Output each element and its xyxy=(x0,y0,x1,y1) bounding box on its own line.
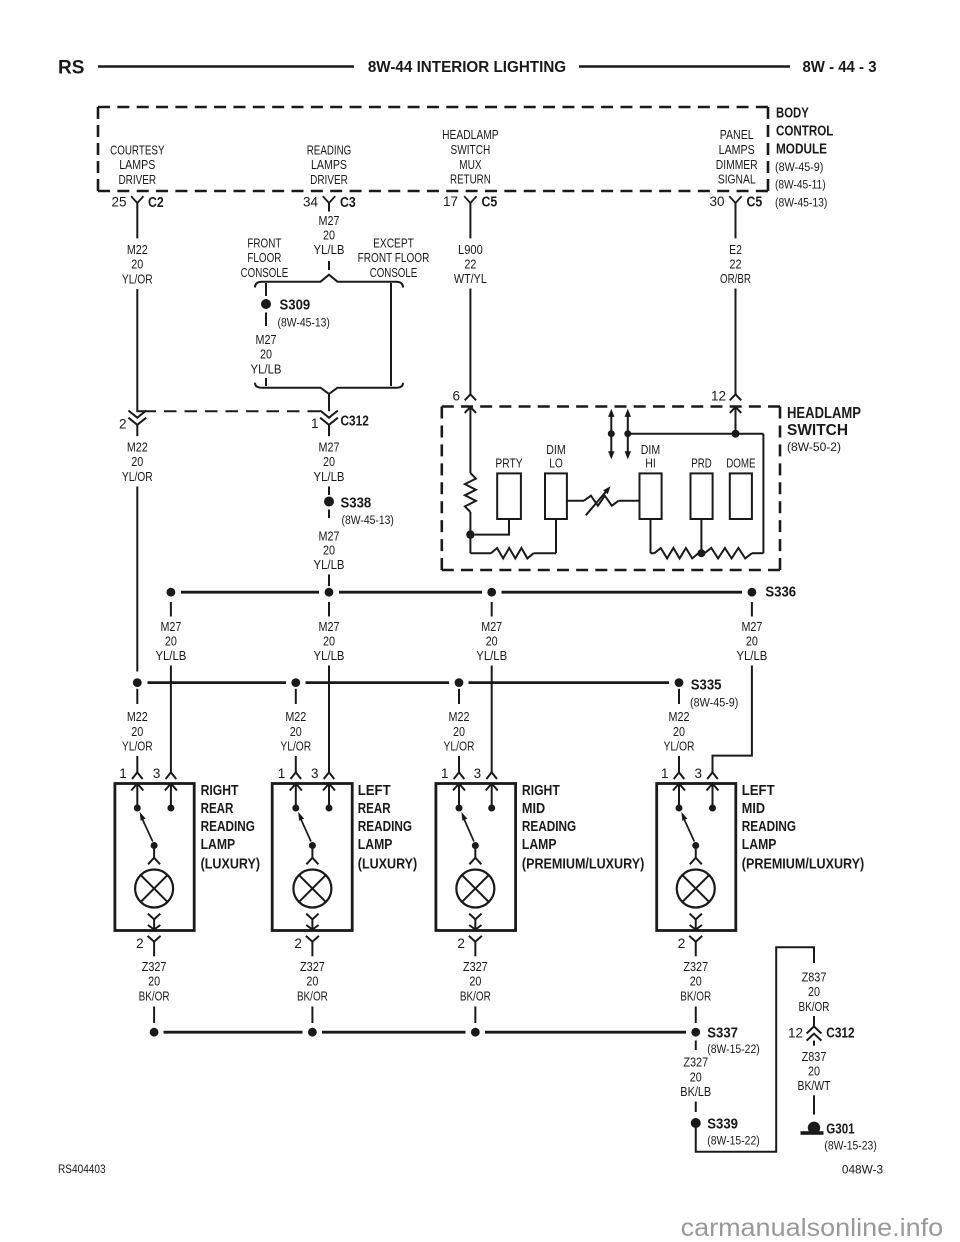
svg-text:(8W-45-9): (8W-45-9) xyxy=(775,160,823,174)
svg-text:(8W-45-13): (8W-45-13) xyxy=(278,316,330,330)
left rear reading lamp pin 1 connector xyxy=(278,766,301,781)
wire resistor to junction xyxy=(469,512,471,535)
svg-text:20: 20 xyxy=(131,454,143,469)
svg-text:LAMP: LAMP xyxy=(201,837,236,853)
right rear reading lamp pin 2 internal xyxy=(148,914,160,930)
splice S309 dashed branch xyxy=(261,283,271,326)
svg-text:34: 34 xyxy=(303,195,319,210)
svg-text:20: 20 xyxy=(453,724,465,739)
svg-text:SWITCH: SWITCH xyxy=(787,422,848,439)
svg-text:20: 20 xyxy=(148,974,160,989)
svg-text:(8W-15-22): (8W-15-22) xyxy=(707,1134,759,1148)
svg-text:1: 1 xyxy=(441,766,449,781)
svg-text:(8W-45-13): (8W-45-13) xyxy=(775,195,827,209)
wire L900 from C5 17 xyxy=(469,203,471,239)
left rear reading lamp label xyxy=(358,783,418,872)
svg-text:DOME: DOME xyxy=(726,456,756,471)
wire switch right vertical xyxy=(762,434,764,554)
right mid reading lamp box xyxy=(436,784,516,931)
pin 12 inner chevron xyxy=(730,407,741,413)
svg-text:20: 20 xyxy=(808,984,820,999)
svg-text:1: 1 xyxy=(119,766,127,781)
wire label L900 22 WT/YL xyxy=(454,242,487,286)
svg-text:MID: MID xyxy=(742,801,765,817)
svg-text:12: 12 xyxy=(788,1026,803,1041)
footer drawing number RS404403 xyxy=(58,1162,106,1176)
right mid reading lamp bulb socket xyxy=(469,849,481,865)
svg-text:WT/YL: WT/YL xyxy=(454,271,487,286)
wire inside switch pin12 to bus xyxy=(735,407,737,434)
svg-text:YL/LB: YL/LB xyxy=(314,648,345,663)
left mid reading lamp pin 1 connector xyxy=(661,766,684,781)
svg-text:YL/OR: YL/OR xyxy=(122,271,153,286)
wire M22 drop 3 label xyxy=(444,689,475,773)
svg-text:Z837: Z837 xyxy=(802,1049,827,1064)
pin 6 chevron xyxy=(452,389,476,404)
svg-text:C3: C3 xyxy=(340,195,356,211)
wire M27 drop 3 label xyxy=(476,602,507,663)
right rear reading lamp pin 2 connector xyxy=(136,936,161,956)
wire M27 from C3 xyxy=(328,203,330,212)
svg-text:3: 3 xyxy=(474,766,482,781)
svg-text:LO: LO xyxy=(549,456,563,471)
svg-text:20: 20 xyxy=(131,724,143,739)
svg-text:Z327: Z327 xyxy=(300,959,325,974)
svg-text:8W - 44 - 3: 8W - 44 - 3 xyxy=(802,59,876,76)
svg-text:G301: G301 xyxy=(826,1122,854,1138)
svg-text:1: 1 xyxy=(311,416,319,431)
svg-text:2: 2 xyxy=(119,417,127,432)
svg-text:REAR: REAR xyxy=(358,801,391,817)
svg-text:DIMMER: DIMMER xyxy=(716,157,758,172)
left mid reading lamp wire label Z327 20 BK/OR xyxy=(680,959,711,1023)
svg-text:HEADLAMP: HEADLAMP xyxy=(787,405,861,422)
svg-text:carmanualsonline.info: carmanualsonline.info xyxy=(681,1214,944,1242)
junction dot S337-1 xyxy=(150,1028,159,1037)
svg-text:(PREMIUM/LUXURY): (PREMIUM/LUXURY) xyxy=(742,856,865,872)
svg-text:20: 20 xyxy=(673,724,685,739)
svg-text:(LUXURY): (LUXURY) xyxy=(201,856,261,872)
right mid reading lamp pin 3 connector xyxy=(474,766,497,781)
svg-text:PRD: PRD xyxy=(691,456,711,471)
left rear reading lamp pin 2 internal xyxy=(306,914,318,930)
right mid reading lamp pin 2 connector xyxy=(457,936,482,956)
svg-text:HI: HI xyxy=(645,456,656,471)
wire label Z837 20 BK/OR xyxy=(799,969,830,1013)
svg-text:M27: M27 xyxy=(319,619,340,634)
svg-text:S335: S335 xyxy=(691,678,722,694)
splice bus S337 xyxy=(164,1031,687,1034)
left mid reading lamp pin 3 connector xyxy=(694,766,717,781)
wire brace to C312 xyxy=(328,393,330,411)
wire label M27 20 YL/LB below C312 xyxy=(314,440,345,484)
svg-text:YL/OR: YL/OR xyxy=(280,739,311,754)
junction dot S337-2 xyxy=(308,1028,317,1037)
connector C5 pin 30 xyxy=(709,194,762,211)
svg-text:RS404403: RS404403 xyxy=(58,1162,106,1176)
svg-text:RETURN: RETURN xyxy=(450,172,491,187)
svg-text:(PREMIUM/LUXURY): (PREMIUM/LUXURY) xyxy=(522,856,645,872)
svg-text:20: 20 xyxy=(165,634,177,649)
left rear reading lamp switch xyxy=(292,805,332,850)
junction dot pin12 bus xyxy=(732,430,740,438)
resistor lower right run 2 xyxy=(705,548,764,558)
svg-text:L900: L900 xyxy=(458,242,483,257)
svg-text:20: 20 xyxy=(746,634,758,649)
svg-text:OR/BR: OR/BR xyxy=(720,271,751,286)
svg-text:READING: READING xyxy=(201,819,255,835)
svg-text:LAMPS: LAMPS xyxy=(311,157,347,172)
right rear reading lamp bulb xyxy=(135,870,173,908)
svg-text:20: 20 xyxy=(323,543,335,558)
svg-text:C312: C312 xyxy=(341,414,369,430)
wire label M27 20 YL/LB below S338 xyxy=(314,529,345,587)
wire to ground G301 xyxy=(813,1095,815,1114)
svg-text:S309: S309 xyxy=(280,298,311,314)
svg-text:Z327: Z327 xyxy=(463,959,488,974)
svg-text:YL/OR: YL/OR xyxy=(664,739,695,754)
wire label Z837 20 BK/WT xyxy=(798,1049,831,1093)
svg-text:DRIVER: DRIVER xyxy=(118,172,156,187)
svg-text:YL/OR: YL/OR xyxy=(444,739,475,754)
svg-text:SIGNAL: SIGNAL xyxy=(718,172,756,187)
svg-text:LEFT: LEFT xyxy=(742,783,775,799)
svg-text:HEADLAMP: HEADLAMP xyxy=(442,127,499,142)
watermark xyxy=(681,1214,944,1242)
left mid reading lamp label xyxy=(742,783,865,872)
switch internal top bus xyxy=(628,433,764,435)
ground G301 symbol xyxy=(801,1122,877,1153)
BCM name BODY CONTROL MODULE with refs xyxy=(775,105,834,209)
svg-text:SWITCH: SWITCH xyxy=(451,142,491,157)
connector C2 pin 25 xyxy=(111,195,163,212)
header RS label xyxy=(58,58,84,79)
wire DIM LO to rheostat xyxy=(567,500,584,502)
svg-text:READING: READING xyxy=(307,142,352,157)
svg-text:MODULE: MODULE xyxy=(776,142,827,158)
right rear reading lamp wire label Z327 20 BK/OR xyxy=(139,959,170,1023)
right mid reading lamp label xyxy=(522,783,645,872)
wire M27 drop 4 label xyxy=(736,602,767,663)
svg-text:YL/LB: YL/LB xyxy=(314,469,345,484)
svg-text:30: 30 xyxy=(709,194,724,209)
header rule left xyxy=(98,65,354,68)
junction dot S336-1 xyxy=(167,588,176,597)
svg-text:LAMP: LAMP xyxy=(358,837,393,853)
svg-text:PRTY: PRTY xyxy=(495,456,522,471)
junction dot S335-3 xyxy=(455,678,464,687)
svg-text:20: 20 xyxy=(690,1069,702,1084)
svg-text:(8W-50-2): (8W-50-2) xyxy=(787,440,841,454)
splice S339 xyxy=(691,1117,760,1148)
BCM pin label HEADLAMP SWITCH MUX RETURN xyxy=(442,127,499,186)
svg-text:22: 22 xyxy=(464,257,476,272)
svg-text:READING: READING xyxy=(742,819,796,835)
switch position PRD box xyxy=(691,456,713,520)
wire junction to lower-left run xyxy=(469,535,471,554)
svg-text:CONSOLE: CONSOLE xyxy=(241,265,289,280)
junction dot S335-2 xyxy=(291,678,300,687)
svg-text:20: 20 xyxy=(323,454,335,469)
right rear reading lamp internal terminals xyxy=(131,784,177,809)
splice name S335 xyxy=(690,678,738,710)
footer sheet number 048W-3 xyxy=(842,1163,883,1177)
svg-text:BK/OR: BK/OR xyxy=(680,988,711,1003)
svg-text:LEFT: LEFT xyxy=(358,783,391,799)
junction dot S336-4 xyxy=(748,588,757,597)
svg-text:8W-44 INTERIOR LIGHTING: 8W-44 INTERIOR LIGHTING xyxy=(368,59,566,76)
right mid reading lamp switch xyxy=(456,805,496,850)
left rear reading lamp pin 2 connector xyxy=(294,936,319,956)
svg-text:25: 25 xyxy=(111,195,126,210)
pin 12 chevron xyxy=(711,389,741,404)
svg-text:M22: M22 xyxy=(449,709,470,724)
svg-text:LAMP: LAMP xyxy=(742,837,777,853)
svg-text:RIGHT: RIGHT xyxy=(522,783,560,799)
svg-text:20: 20 xyxy=(306,974,318,989)
svg-text:20: 20 xyxy=(690,974,702,989)
svg-text:Z327: Z327 xyxy=(683,1055,708,1070)
left mid reading lamp switch xyxy=(676,805,717,850)
svg-text:20: 20 xyxy=(290,724,302,739)
svg-text:BK/LB: BK/LB xyxy=(680,1084,711,1099)
wire label E2 22 OR/BR xyxy=(720,242,751,286)
wire M22 from C2 xyxy=(136,203,138,239)
svg-text:FRONT: FRONT xyxy=(247,236,281,251)
splice name S337 xyxy=(707,1026,759,1057)
switch position DOME box xyxy=(726,456,756,520)
splice S338 xyxy=(324,487,394,528)
svg-text:(LUXURY): (LUXURY) xyxy=(358,856,418,872)
svg-text:2: 2 xyxy=(136,936,144,951)
wire label M27 20 YL/LB under S309 xyxy=(251,332,282,386)
svg-text:S338: S338 xyxy=(341,496,372,512)
svg-text:1: 1 xyxy=(661,766,669,781)
wire M27 drop 2 to lamp2 pin3 xyxy=(328,666,330,773)
svg-text:M27: M27 xyxy=(319,529,340,544)
connector C5 pin 17 xyxy=(443,194,497,211)
resistor lower left run xyxy=(470,548,556,558)
left rear reading lamp bulb socket xyxy=(306,849,318,865)
BCM pin label READING LAMPS DRIVER xyxy=(307,142,352,187)
headlamp switch dashed box xyxy=(442,407,780,571)
svg-text:YL/LB: YL/LB xyxy=(736,648,767,663)
svg-text:20: 20 xyxy=(486,634,498,649)
right rear reading lamp pin 3 connector xyxy=(153,766,176,781)
resistor vertical in switch xyxy=(465,473,476,512)
svg-text:BODY: BODY xyxy=(776,105,809,121)
svg-text:S336: S336 xyxy=(765,585,796,601)
junction dot S335-1 xyxy=(133,678,142,687)
connector C312 dashed separation line xyxy=(144,410,321,412)
splice name S309 xyxy=(278,298,330,330)
svg-text:(8W-45-13): (8W-45-13) xyxy=(342,513,394,527)
svg-text:(8W-15-23): (8W-15-23) xyxy=(824,1139,876,1153)
wire M22 drop 1 label xyxy=(122,689,153,773)
svg-text:YL/LB: YL/LB xyxy=(251,361,282,376)
left mid reading lamp box xyxy=(657,784,736,931)
header page number 8W - 44 - 3 xyxy=(802,59,876,76)
wire M22 down to S335 xyxy=(136,487,138,672)
right mid reading lamp wire label Z327 20 BK/OR xyxy=(460,959,491,1023)
svg-text:BK/OR: BK/OR xyxy=(460,988,491,1003)
left mid reading lamp pin 2 internal xyxy=(690,914,702,930)
svg-text:C5: C5 xyxy=(747,195,763,211)
svg-text:Z837: Z837 xyxy=(802,969,827,984)
right rear reading lamp pin 1 connector xyxy=(119,766,142,781)
mechanical link arrow left xyxy=(608,409,615,460)
svg-text:20: 20 xyxy=(323,228,335,243)
body control module dashed box xyxy=(98,107,768,191)
left mid reading lamp bulb xyxy=(677,870,715,908)
left mid reading lamp internal terminals xyxy=(673,784,719,809)
svg-text:17: 17 xyxy=(443,194,458,209)
wire label M22 20 YL/OR xyxy=(122,242,153,286)
svg-text:M27: M27 xyxy=(160,619,181,634)
right mid reading lamp pin 2 internal xyxy=(469,914,481,930)
wire M27 drop 1 label xyxy=(155,602,186,663)
svg-text:1: 1 xyxy=(278,766,286,781)
svg-text:S339: S339 xyxy=(707,1117,738,1133)
svg-text:C5: C5 xyxy=(482,195,498,211)
left rear reading lamp bulb xyxy=(293,870,331,908)
svg-text:M27: M27 xyxy=(319,440,340,455)
wire L900 to headlamp switch pin 6 xyxy=(469,289,471,395)
label FRONT FLOOR CONSOLE xyxy=(241,236,289,280)
right rear reading lamp label xyxy=(201,783,261,872)
connector C312 pin 1 chevrons and name xyxy=(311,411,369,437)
rheostat variable resistor xyxy=(584,486,619,515)
svg-text:MID: MID xyxy=(522,801,545,817)
svg-text:LAMPS: LAMPS xyxy=(119,157,155,172)
junction dot S336-3 xyxy=(487,588,496,597)
wire M22 drop 4 label xyxy=(664,689,695,773)
junction dot S336-2 xyxy=(325,588,334,597)
wire stub M27 to brace xyxy=(328,261,330,270)
svg-text:2: 2 xyxy=(457,936,465,951)
wire M27 drop 4 jog to lamp4 pin3 xyxy=(713,666,752,773)
svg-text:M27: M27 xyxy=(256,332,277,347)
svg-text:M27: M27 xyxy=(741,619,762,634)
svg-text:M22: M22 xyxy=(127,242,148,257)
svg-text:RIGHT: RIGHT xyxy=(201,783,239,799)
wire M27 drop 1 to lamp1 pin3 xyxy=(170,666,172,773)
left rear reading lamp pin 3 connector xyxy=(311,766,334,781)
wire rheostat to DIM HI xyxy=(619,500,640,502)
junction dot left xyxy=(466,530,474,538)
junction dot S335-4 xyxy=(675,678,684,687)
svg-text:YL/OR: YL/OR xyxy=(122,739,153,754)
svg-text:YL/LB: YL/LB xyxy=(155,648,186,663)
svg-text:22: 22 xyxy=(730,257,742,272)
svg-text:FRONT FLOOR: FRONT FLOOR xyxy=(358,250,430,265)
svg-text:Z327: Z327 xyxy=(142,959,167,974)
svg-text:048W-3: 048W-3 xyxy=(842,1163,883,1177)
svg-text:CONTROL: CONTROL xyxy=(776,124,834,140)
svg-text:(8W-15-22): (8W-15-22) xyxy=(707,1042,759,1056)
svg-text:M22: M22 xyxy=(127,440,148,455)
svg-text:BK/WT: BK/WT xyxy=(798,1078,831,1093)
resistor lower right run 1 xyxy=(651,548,699,558)
splice name S336 xyxy=(765,585,796,601)
wire label M27 20 YL/LB xyxy=(314,213,345,257)
svg-text:20: 20 xyxy=(808,1063,820,1078)
wire S339 to ground route xyxy=(696,947,814,1151)
svg-text:S337: S337 xyxy=(707,1026,738,1042)
svg-text:20: 20 xyxy=(469,974,481,989)
svg-text:PANEL: PANEL xyxy=(720,127,754,142)
right rear reading lamp box xyxy=(115,784,194,931)
connector C312 pin 12 xyxy=(788,1016,855,1046)
splice bus S336 xyxy=(181,591,742,594)
svg-text:2: 2 xyxy=(294,936,302,951)
left mid reading lamp bulb socket xyxy=(690,849,702,865)
connector C3 pin 34 xyxy=(303,195,356,212)
connector C312 pin 2 chevrons xyxy=(119,411,146,437)
svg-text:YL/LB: YL/LB xyxy=(314,557,345,572)
switch position PRTY box xyxy=(495,456,522,520)
svg-text:READING: READING xyxy=(358,819,412,835)
svg-text:3: 3 xyxy=(153,766,161,781)
junction dot S337-4 xyxy=(691,1028,700,1037)
wire E2 to headlamp switch pin 12 xyxy=(735,289,737,395)
svg-text:20: 20 xyxy=(131,257,143,272)
wire Z327 BK/LB below S337 xyxy=(680,1041,711,1113)
upper brace xyxy=(255,275,403,288)
svg-text:CONSOLE: CONSOLE xyxy=(370,265,418,280)
svg-text:6: 6 xyxy=(452,389,460,404)
right mid reading lamp internal terminals xyxy=(453,784,498,809)
wire right branch except-console xyxy=(390,283,392,386)
svg-text:12: 12 xyxy=(711,389,726,404)
label EXCEPT FRONT FLOOR CONSOLE xyxy=(358,236,430,280)
switch position DIM HI box xyxy=(640,442,662,519)
header title 8W-44 INTERIOR LIGHTING xyxy=(368,59,566,76)
wire M22 down to C312 xyxy=(137,289,143,411)
header rule right xyxy=(579,65,790,68)
svg-text:RS: RS xyxy=(58,58,84,79)
wire M22 drop 2 label xyxy=(280,689,311,773)
svg-text:(8W-45-11): (8W-45-11) xyxy=(775,178,826,192)
svg-text:YL/LB: YL/LB xyxy=(314,242,345,257)
svg-text:(8W-45-9): (8W-45-9) xyxy=(690,696,738,710)
right mid reading lamp bulb xyxy=(456,870,494,908)
left rear reading lamp wire label Z327 20 BK/OR xyxy=(297,959,328,1023)
wire PRTY to junction xyxy=(475,519,509,535)
junction dot S337-3 xyxy=(471,1028,480,1037)
svg-text:BK/OR: BK/OR xyxy=(139,988,170,1003)
svg-text:BK/OR: BK/OR xyxy=(297,988,328,1003)
svg-text:M27: M27 xyxy=(319,213,340,228)
svg-text:M22: M22 xyxy=(669,709,690,724)
pin 6 inner chevron xyxy=(465,407,476,413)
left rear reading lamp internal terminals xyxy=(290,784,335,809)
svg-text:M22: M22 xyxy=(127,709,148,724)
junction dot PRD xyxy=(697,549,705,557)
left mid reading lamp pin 2 connector xyxy=(678,936,703,956)
svg-text:DRIVER: DRIVER xyxy=(310,172,348,187)
BCM pin label PANEL LAMPS DIMMER SIGNAL xyxy=(716,127,758,186)
svg-text:C312: C312 xyxy=(826,1025,854,1041)
svg-text:YL/LB: YL/LB xyxy=(476,648,507,663)
right rear reading lamp switch xyxy=(134,805,175,850)
svg-text:3: 3 xyxy=(694,766,702,781)
left rear reading lamp box xyxy=(272,784,352,931)
lower brace xyxy=(255,383,403,394)
svg-text:3: 3 xyxy=(311,766,319,781)
wire PRD bottom xyxy=(700,519,702,553)
svg-text:M22: M22 xyxy=(285,709,306,724)
